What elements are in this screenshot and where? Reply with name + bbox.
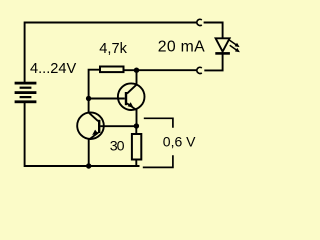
resistor R2 30 [132,134,141,160]
wire: battery minus down and bottom rail [25,102,140,166]
wire: Q1 base to node C [100,125,136,127]
wire: LED cathode down to bottom terminal [204,54,222,71]
node B junction dot [86,96,91,101]
wire: R1 left lead down to node B [89,70,100,99]
transistor Q2 [118,83,145,110]
svg-text:0,6 V: 0,6 V [163,134,196,150]
svg-text:30: 30 [110,138,125,154]
node C junction dot [134,123,139,128]
wire: node B down to Q1 collector [88,99,90,113]
resistor R1 4,7k [100,67,124,73]
LED D1 [215,38,230,54]
measurement bracket 0,6 V top lead [144,118,173,127]
LED light arrow 1 [229,40,239,47]
node A junction dot [134,68,139,73]
node D junction dot [86,163,91,168]
wire: node A down to Q2 collector [136,70,138,84]
wire: node C down to resistor R2 top [135,126,137,134]
wire: Q1 emitter down to ground rail [88,140,90,167]
svg-text:4,7k: 4,7k [99,41,127,57]
battery B1 4...24V [15,82,37,104]
transistor Q1 [77,112,104,139]
wire: node B to Q2 base [89,98,125,100]
measurement bracket 0,6 V bottom lead [143,155,173,167]
label 30 [110,138,125,154]
wire: R2 bottom lead to ground rail [135,160,137,166]
label 0,6 V [163,134,196,150]
terminal bottom (connector) [197,67,202,73]
wire: return rail from bottom terminal to resistor R1 right [125,69,197,71]
wire: top terminal to LED anode [204,23,223,39]
label 4,7k [99,41,127,57]
label 4...24V [30,61,77,77]
terminal top (connector) [197,19,202,25]
svg-text:20 mA: 20 mA [158,39,205,56]
LED light arrow 2 [230,45,240,52]
label 20 mA [158,39,205,56]
wire: battery plus up and top rail to terminal [25,23,197,83]
wire: Q2 emitter down to node C [136,110,138,127]
svg-text:4...24V: 4...24V [30,61,77,77]
